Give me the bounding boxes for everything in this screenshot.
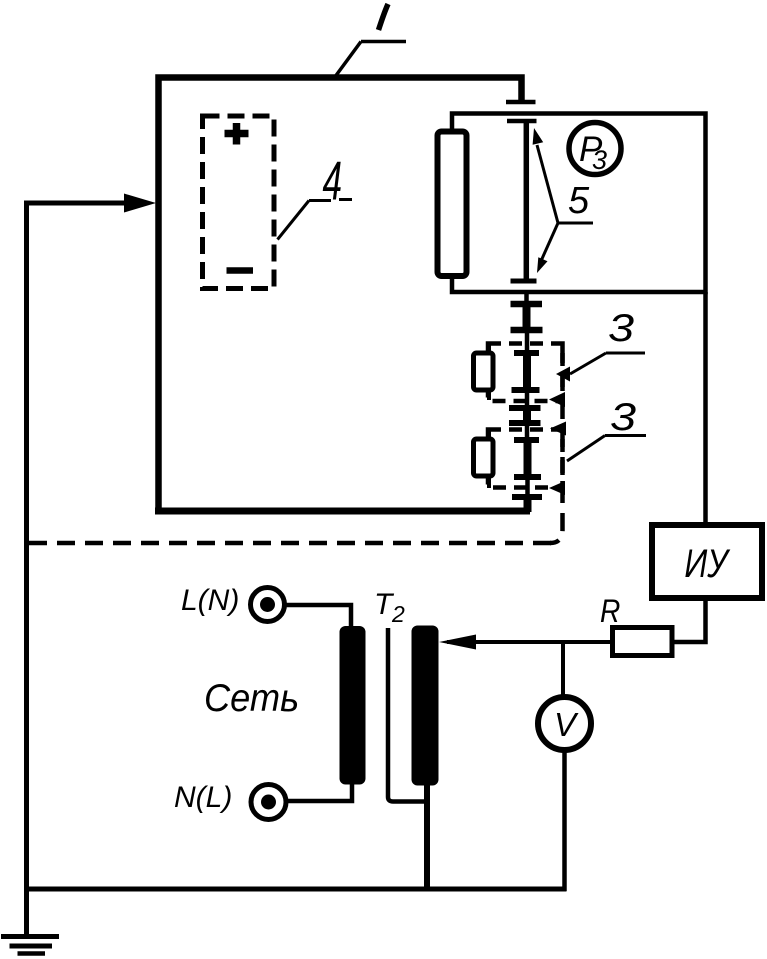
bushing capacitor plates bbox=[506, 100, 536, 105]
wire: secondary bottom to rail bbox=[424, 783, 430, 891]
spark gap rod bbox=[524, 123, 530, 279]
svg-text:R: R bbox=[600, 594, 620, 629]
measuring unit IU bbox=[652, 525, 762, 598]
ground bbox=[1, 934, 59, 939]
wire: N(L) to primary bottom bbox=[287, 783, 353, 801]
battery 4 (dashed box) bbox=[203, 116, 275, 289]
resistor in module 2 bbox=[487, 431, 491, 440]
svg-text:L(N): L(N) bbox=[181, 584, 239, 617]
chamber box 1 bottom edge bbox=[155, 508, 530, 515]
voltmeter V bbox=[538, 697, 591, 750]
meter P3 bbox=[569, 123, 621, 175]
arrester module 3 (dashed box #2) bbox=[488, 430, 563, 488]
wire: L(N) to primary top bbox=[286, 605, 352, 627]
label 1 bbox=[379, 4, 389, 30]
arrowhead at T2 secondary bbox=[439, 635, 476, 650]
arrowhead into chamber 1 bbox=[124, 194, 156, 213]
battery plus mark bbox=[225, 130, 249, 138]
chamber box 2 (test vessel) bbox=[452, 114, 706, 293]
gap element I2 bbox=[525, 330, 530, 353]
gap element I5 bbox=[525, 477, 530, 497]
bottom rail wire bbox=[27, 887, 567, 892]
svg-text:3: 3 bbox=[610, 396, 636, 439]
wire: voltmeter to bottom rail bbox=[562, 750, 567, 891]
transformer T2 secondary winding bbox=[412, 626, 439, 786]
svg-text:5: 5 bbox=[568, 180, 590, 222]
wire: left vertical bus bbox=[24, 201, 29, 936]
transformer core / screen wire bbox=[388, 628, 427, 802]
svg-text:Сеть: Сеть bbox=[204, 676, 299, 719]
svg-text:4: 4 bbox=[323, 149, 343, 211]
svg-text:V: V bbox=[554, 706, 579, 743]
terminal N(L) bbox=[251, 785, 286, 820]
tick at module 2 lower corner bbox=[549, 481, 565, 495]
wire: voltmeter branch bbox=[561, 642, 565, 698]
transformer T2 primary winding bbox=[340, 626, 366, 785]
wire: R to transformer with arrow bbox=[447, 640, 613, 644]
wire: chamber 2 to IU bbox=[703, 292, 708, 525]
svg-text:3: 3 bbox=[592, 145, 607, 175]
terminal L(N) bbox=[251, 588, 285, 622]
wire: feed into chamber 1 with arrow bbox=[24, 201, 128, 206]
svg-text:3: 3 bbox=[608, 307, 634, 350]
svg-text:ИУ: ИУ bbox=[684, 541, 731, 586]
battery minus mark bbox=[227, 267, 254, 274]
tick at module 1 lower corner bbox=[549, 392, 565, 407]
resistor in module 1 bbox=[487, 345, 491, 354]
tick at module 2 upper corner bbox=[550, 422, 566, 436]
svg-text:2: 2 bbox=[391, 601, 405, 627]
wire: IU to R bbox=[672, 598, 706, 642]
spark gap bottom plate bbox=[511, 279, 537, 284]
resistor (tall, in chamber 2) bbox=[438, 132, 467, 277]
arrester module 3 (dashed box #1) bbox=[488, 344, 563, 402]
gap element I3 bbox=[525, 390, 530, 408]
dashed screen enclosure bbox=[550, 345, 563, 543]
gap element I1 bbox=[524, 292, 529, 304]
chamber box 1 (thick outline) bbox=[159, 78, 522, 515]
svg-text:N(L): N(L) bbox=[174, 781, 232, 814]
resistor R bbox=[613, 628, 673, 656]
gap element I4 bbox=[514, 437, 539, 443]
